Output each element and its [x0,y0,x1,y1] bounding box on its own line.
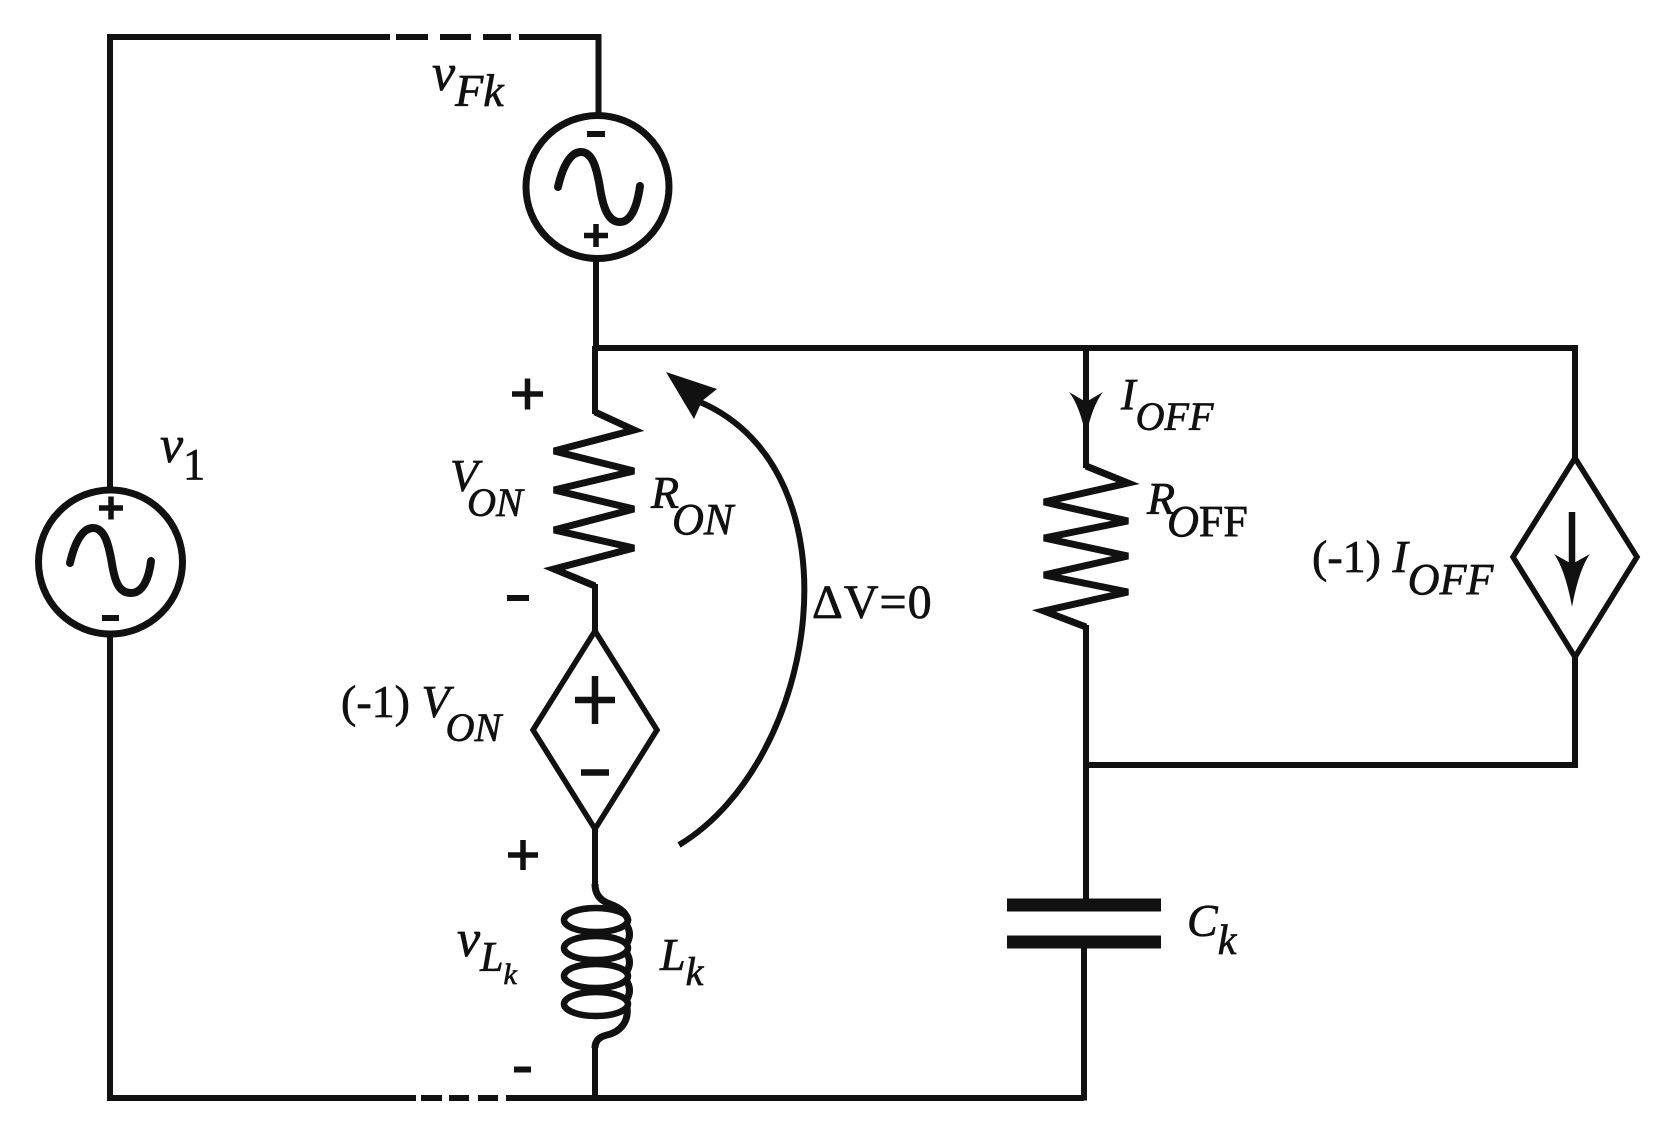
sine wave inside v1 [70,528,151,593]
minus sign of v_Lk polarity [514,1067,531,1073]
wire bottom horizontal (solid right part) [506,1095,1084,1101]
svg-text:vFk: vFk [432,45,505,116]
wire from vFk source down to node A [593,258,599,351]
capacitor Ck bottom plate [1007,936,1161,949]
plus sign of v_Lk polarity [508,840,538,870]
minus sign inside diamond [581,769,609,776]
inductor Lk bottom hook [595,1007,627,1048]
svg-text:Lk: Lk [659,929,705,994]
inductor Lk loop 3 [564,964,628,988]
svg-text:(-1) VON: (-1) VON [341,676,503,750]
wire from node A down to R_ON [592,346,598,414]
svg-text:(-1) IOFF: (-1) IOFF [1312,531,1494,604]
wire right loop vertical upper [1572,346,1578,460]
plus sign of V_ON polarity [512,379,543,410]
minus sign of V_ON polarity [507,595,529,601]
resistor R_OFF zigzag [1044,466,1128,627]
svg-text:RON: RON [650,467,736,544]
arrow inside right diamond (shaft and head) [1569,512,1576,570]
svg-text:Ck: Ck [1187,895,1238,964]
plus sign inside vFk (bottom) [584,224,608,247]
wire from diamond to inductor [592,829,598,886]
wire bottom dashed segment [421,1095,498,1101]
svg-text:ΔV=0: ΔV=0 [812,576,933,629]
svg-text:vLk: vLk [457,911,517,991]
svg-text:ROFF: ROFF [1146,473,1248,546]
plus sign inside diamond [575,676,615,724]
wire left vertical upper (from top wire to v1) [107,34,113,490]
wire vFk branch vertical above source [596,34,602,116]
svg-text:IOFF: IOFF [1120,370,1214,439]
plus sign inside v1 (top) [99,497,123,520]
curved arrow Delta-V arc [679,402,804,845]
wire top-left horizontal (solid part) [107,34,390,40]
wire from capacitor to bottom wire [1081,948,1087,1101]
wire junction horizontal to right loop [1085,762,1578,768]
arrow I_OFF on R_OFF branch (head) [1069,392,1103,437]
dependent current source (-1)I_OFF diamond [1513,458,1637,657]
resistor R_ON zigzag [554,412,634,586]
inductor Lk loop 4 [564,992,628,1016]
inductor Lk loop 1 [564,908,628,932]
wire from inductor to bottom wire [592,1046,598,1101]
inductor Lk top hook [595,884,628,921]
svg-text:VON: VON [450,450,525,525]
inductor Lk right spine arcs [626,924,630,1001]
sine wave inside vFk [558,152,640,222]
wire top-right horizontal to vFk branch corner [519,34,601,40]
svg-text:v1: v1 [160,417,205,489]
voltage source vFk circle [526,116,669,259]
wire top dashed segment [396,34,511,40]
minus sign inside vFk (top) [587,131,605,137]
wire left vertical lower (from v1 to bottom wire) [107,634,113,1101]
wire right loop vertical lower [1572,655,1578,768]
wire bottom horizontal (solid left part) [107,1095,416,1101]
dependent voltage source (-1)V_ON diamond [533,631,657,829]
wire from R_OFF down to capacitor [1083,625,1089,901]
minus sign inside v1 (bottom) [102,615,119,621]
wire R_OFF branch from node to resistor [1083,346,1089,468]
voltage source v1 circle [39,490,183,634]
node A horizontal wire to right branch [595,345,1578,351]
inductor Lk loop 2 [564,936,628,960]
wire from R_ON to dependent source diamond [592,584,598,633]
curved arrow Delta-V head [666,372,717,419]
capacitor Ck top plate [1007,899,1161,912]
